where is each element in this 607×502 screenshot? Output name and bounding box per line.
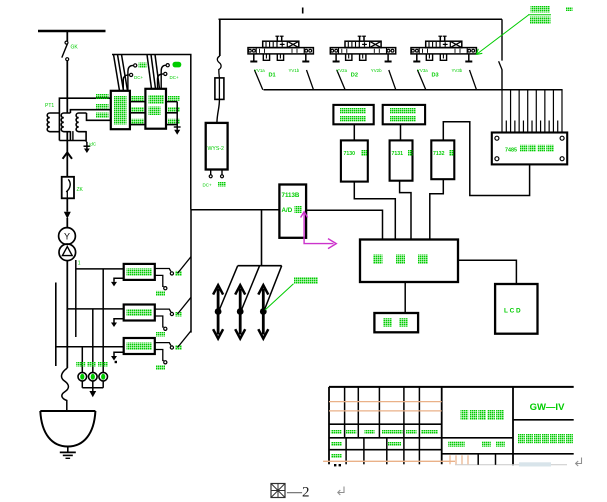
svg-text:YV3a: YV3a xyxy=(417,68,428,73)
wire A/D drop bus xyxy=(190,210,192,333)
switch squiggle xyxy=(217,56,221,78)
T1 output circle 1 xyxy=(155,269,171,272)
T2 output circle 1 xyxy=(155,309,171,312)
valve D2 left solenoid xyxy=(331,49,334,52)
title row labels xyxy=(331,430,342,435)
wire phase tap 1 xyxy=(75,260,77,337)
T3 selector diagonal to A/D bus xyxy=(178,331,192,348)
flexible lead (squiggle) to furnace xyxy=(62,368,69,411)
valve D2 top pins xyxy=(359,36,361,41)
measuring board U1 1-05-LR2 xyxy=(111,91,130,129)
svg-text:7132: 7132 xyxy=(433,151,445,157)
furnace transformer Y/D symbol xyxy=(59,228,76,245)
svg-text:YV1b: YV1b xyxy=(289,68,300,73)
tick mark xyxy=(302,8,304,14)
T3 output circle 2 xyxy=(155,350,164,361)
wire xyxy=(66,261,68,368)
wire 7131 to computer xyxy=(400,181,411,240)
svg-text:DC+: DC+ xyxy=(170,75,179,80)
T2 ground arrow xyxy=(114,319,124,323)
computer box xyxy=(360,240,458,283)
PT1 winding 1 xyxy=(47,113,59,132)
transducer T1 xyxy=(124,264,155,280)
svg-text:DC+: DC+ xyxy=(134,75,143,80)
arrow up (power flow) xyxy=(63,152,72,158)
valve D2 body xyxy=(345,41,381,47)
wire line1 to transducer 1 xyxy=(76,268,124,270)
valve D2 left drop xyxy=(335,54,337,62)
svg-text:7130: 7130 xyxy=(344,151,356,157)
fuse RD xyxy=(215,78,224,100)
current transformer CT2 xyxy=(89,372,98,381)
relay output bus xyxy=(264,89,563,91)
wire CT riser c xyxy=(102,269,104,372)
terminal box XB2 xyxy=(383,105,425,124)
U1-U2 linking pins xyxy=(130,101,146,103)
svg-text:D2: D2 xyxy=(351,73,358,79)
wire PT1 secondary c to board xyxy=(87,113,111,120)
wire XB2 to 7131 xyxy=(400,124,402,140)
valve D1 springs xyxy=(263,54,269,60)
transducer T3 xyxy=(124,338,155,354)
svg-text:1: 1 xyxy=(78,261,81,267)
leader note solenoid valves xyxy=(476,49,482,55)
svg-text:Y: Y xyxy=(64,232,70,242)
arrow down (to furnace transformer) xyxy=(64,212,71,219)
U2 output pins xyxy=(166,101,177,103)
electrode feed diagonal 1 xyxy=(217,266,237,315)
wire CT riser a xyxy=(81,347,83,373)
U1 terminal DC+ xyxy=(123,75,129,91)
ground arrow of PT1 xyxy=(86,142,88,149)
U2 output common ground arrow xyxy=(176,102,178,130)
wire drop to fuse xyxy=(219,19,221,56)
U1 terminal MO xyxy=(128,65,133,90)
svg-text:GK: GK xyxy=(71,45,79,51)
wire PT1 secondary b to board xyxy=(70,110,110,113)
svg-text:PT1: PT1 xyxy=(45,103,54,109)
valve D2 right solenoid xyxy=(387,49,390,52)
relay board comb wires xyxy=(501,90,503,133)
U2 terminal (green tag) xyxy=(161,65,166,89)
LCD box xyxy=(495,284,537,334)
wire A/D to computer xyxy=(306,210,382,239)
solenoid valve D3 bar xyxy=(411,48,476,54)
relay board 7485 xyxy=(492,133,567,165)
keyboard box xyxy=(374,313,418,332)
top distribution wire xyxy=(219,18,503,20)
circuit breaker ZK xyxy=(62,177,74,199)
wire xyxy=(66,31,68,41)
valve D3 contact diagonals xyxy=(418,70,426,90)
wire 7130 to computer xyxy=(354,182,395,240)
board 7132 xyxy=(431,140,454,179)
measuring board U2 amplifier xyxy=(145,89,166,129)
junction dot xyxy=(115,361,117,363)
svg-text:7113B: 7113B xyxy=(282,192,300,199)
T3 labels xyxy=(175,345,182,350)
valve D3 top pins xyxy=(439,36,441,41)
valve D3 springs xyxy=(426,54,432,60)
T1 ground arrow xyxy=(114,278,124,282)
U2 terminal DC+ 2 xyxy=(158,74,164,89)
electrode feed diagonal 2 xyxy=(240,266,260,315)
solenoid valve D2 bar xyxy=(330,48,395,54)
faint footer text xyxy=(519,462,551,466)
electrode double arrow xyxy=(262,289,265,335)
wire line3 to transducer 3 xyxy=(56,346,124,348)
T2 output circle 2 xyxy=(155,316,164,327)
wire relay board to 7132 board xyxy=(443,122,529,196)
solenoid valve D1 bar xyxy=(248,48,313,54)
CT labels xyxy=(76,362,85,367)
current transformer CT1 xyxy=(78,372,87,381)
label electrode sensors xyxy=(294,277,319,284)
wire xyxy=(66,61,68,113)
transducer T2 xyxy=(124,305,155,321)
paragraph mark 1 xyxy=(576,458,582,467)
board 7130 xyxy=(341,140,368,181)
T3 output circle 1 xyxy=(155,343,171,346)
U1 top feed diagonals xyxy=(114,55,120,91)
U2 top feed diagonals xyxy=(147,55,152,89)
caption: figure 2 xyxy=(271,484,285,498)
svg-text:L C D: L C D xyxy=(504,308,521,315)
wire left stub bus xyxy=(55,283,57,367)
wire line2 to transducer 2 xyxy=(67,308,123,310)
valve D3 right solenoid xyxy=(468,49,471,52)
electrode double arrow xyxy=(239,289,242,335)
valve D1 contact diagonals xyxy=(255,70,263,90)
wire xyxy=(66,152,68,176)
valve D3 left solenoid xyxy=(412,49,415,52)
title block bottom lines xyxy=(323,460,455,462)
svg-text:DC+: DC+ xyxy=(203,183,212,188)
WYS-2 pins xyxy=(210,170,212,175)
wire PT1 common xyxy=(59,131,87,142)
wire computer to LCD xyxy=(458,260,516,284)
valve D1 body xyxy=(263,41,299,47)
svg-text:D3: D3 xyxy=(432,73,439,79)
title block frame xyxy=(329,386,574,388)
svg-text:WYS-2: WYS-2 xyxy=(208,146,225,152)
ground under furnace xyxy=(67,447,69,453)
valve D2 springs xyxy=(346,54,352,60)
wire XB1 to 7130 xyxy=(353,124,355,140)
paragraph mark 2 xyxy=(338,487,344,496)
T2 labels xyxy=(175,312,182,317)
wire xyxy=(66,132,68,153)
current transformer CT3 xyxy=(99,372,108,381)
terminal box XB1 xyxy=(333,105,373,124)
PT1 winding 3 xyxy=(76,113,86,132)
title block left grid xyxy=(344,387,346,438)
valve D2 right drop xyxy=(387,54,389,62)
svg-text:D1: D1 xyxy=(269,73,276,79)
svg-text:YV1a: YV1a xyxy=(254,68,265,73)
wire xyxy=(66,198,68,211)
svg-text:jdC: jdC xyxy=(88,142,97,147)
wire A/D to electrode sensor bar xyxy=(261,210,263,266)
U1 input pin labels xyxy=(96,94,109,99)
electrode sensor top bar xyxy=(238,265,282,267)
wire 7132 to computer xyxy=(430,179,444,239)
power module WYS-2 xyxy=(206,123,228,170)
flow arrow (magenta) xyxy=(301,212,308,218)
wire top line drop to relay bus xyxy=(501,19,503,60)
valve D3 body xyxy=(426,41,462,47)
CT common with arrow xyxy=(81,381,83,388)
valve D1 right solenoid xyxy=(305,49,308,52)
wire PT1 secondary a to board xyxy=(59,98,110,140)
T1 selector diagonal to A/D bus xyxy=(178,257,192,274)
svg-text:ZK: ZK xyxy=(77,187,84,193)
electrode double arrow xyxy=(217,289,220,335)
T1 labels xyxy=(175,271,182,276)
valve D1 top pins xyxy=(276,36,278,41)
svg-text:GW—IV: GW—IV xyxy=(530,402,565,413)
svg-text:A/D: A/D xyxy=(282,207,293,214)
furnace (electric carbide furnace) shell xyxy=(40,410,95,412)
svg-text:YV3b: YV3b xyxy=(452,68,463,73)
svg-text:7485: 7485 xyxy=(505,148,517,154)
valve D3 right drop xyxy=(468,54,470,62)
electrode feed diagonal 3 xyxy=(263,266,282,315)
bus bar (incoming supply) xyxy=(38,30,106,33)
valve D1 right drop xyxy=(305,54,307,62)
wire CT riser b xyxy=(92,309,94,372)
wire fuse to WYS-2 xyxy=(217,99,220,123)
title center: schematic name xyxy=(461,410,469,420)
wire computer to keyboard xyxy=(404,282,406,313)
valve D1 left drop xyxy=(253,54,255,62)
T2 selector diagonal to A/D bus xyxy=(178,297,192,314)
T1 output circle 2 xyxy=(155,275,164,286)
svg-text:YV2b: YV2b xyxy=(371,68,382,73)
PT1 winding 2 (on main line) xyxy=(61,113,70,132)
T3 ground arrow xyxy=(114,352,124,356)
disconnect switch GK xyxy=(65,41,68,44)
board 7131 xyxy=(390,140,413,180)
valve D3 left drop xyxy=(416,54,418,62)
svg-text:7131: 7131 xyxy=(392,151,404,157)
A/D board 7113B xyxy=(279,185,306,238)
wire to A/D board xyxy=(191,209,279,211)
svg-text:—2: —2 xyxy=(286,485,310,501)
wire board bus to A/D riser xyxy=(112,55,191,210)
valve D2 contact diagonals xyxy=(337,70,345,90)
svg-text:YV2a: YV2a xyxy=(336,68,347,73)
valve D1 left solenoid xyxy=(249,49,252,52)
